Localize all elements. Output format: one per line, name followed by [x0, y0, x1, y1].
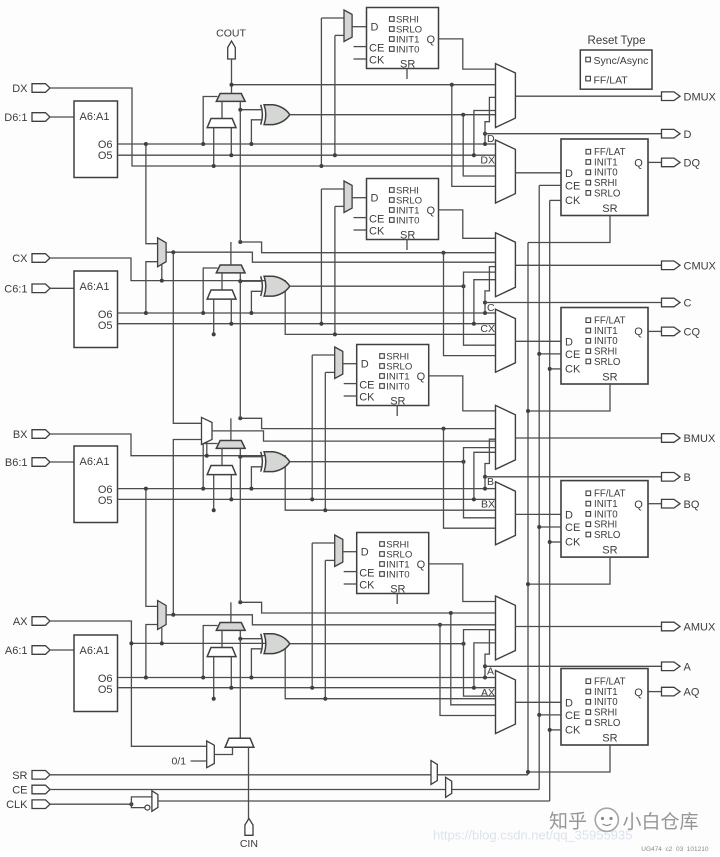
output mux BOUTMUX	[496, 405, 516, 469]
wire O6 bus row C	[118, 312, 486, 314]
LUT C (A6:A1) box	[74, 271, 118, 348]
output pin C	[662, 298, 681, 307]
wire small FF Q to out mux D	[439, 39, 496, 69]
svg-text:AQ: AQ	[684, 687, 700, 699]
wire small FF Q to out mux A	[429, 564, 496, 602]
wire carry branch to lower mux D	[452, 85, 496, 187]
wire data mux legs D	[213, 128, 215, 166]
wire CLK bus to big FF A	[550, 729, 561, 731]
wire big FF SR to SR bus D	[528, 216, 610, 243]
small flip-flop B5FF box	[357, 345, 429, 406]
wire data mux out to MUXCY D	[221, 101, 223, 118]
wire small mux out to FF D C	[352, 197, 366, 199]
wire XOR branch to lower mux C	[464, 286, 496, 345]
wire CLK bus to big FF C	[550, 368, 561, 370]
svg-text:A: A	[487, 666, 494, 678]
wire DX route	[50, 88, 496, 166]
output pin B	[662, 473, 681, 482]
wire XOR output D	[290, 114, 496, 116]
svg-text:D: D	[361, 359, 369, 371]
wire F7BMUX select	[161, 265, 163, 281]
SR bus vertical	[527, 243, 529, 775]
FF input mux BFFMUX	[496, 482, 516, 545]
svg-text:INIT0: INIT0	[396, 216, 419, 227]
D5FF CE stub	[354, 46, 367, 48]
svg-text:DQ: DQ	[684, 158, 701, 170]
watermark logo	[595, 808, 618, 831]
svg-text:CX: CX	[12, 253, 28, 265]
input pin CE	[32, 785, 50, 794]
input pin AX	[32, 617, 50, 626]
svg-text:CX: CX	[480, 323, 495, 335]
wire carry chain C-B	[239, 281, 241, 418]
svg-text:O5: O5	[98, 495, 113, 507]
svg-text:SR: SR	[602, 733, 617, 745]
svg-text:CE: CE	[565, 180, 580, 192]
wire CE line	[50, 789, 539, 791]
wire data mux out to MUXCY C	[221, 273, 223, 290]
svg-text:CIN: CIN	[240, 838, 258, 850]
B5FF CK stub	[344, 395, 357, 397]
svg-text:SR: SR	[12, 770, 27, 782]
xor A	[264, 634, 290, 654]
carry mux MUXCY C	[216, 265, 245, 273]
output pin BQ	[662, 499, 681, 508]
wire carry tap to muxes C	[240, 242, 443, 253]
data mux A	[207, 648, 236, 657]
wire small mux taps B	[311, 355, 313, 499]
wire CX route	[50, 258, 496, 334]
wire carry chain B-A	[239, 457, 241, 603]
svg-text:SRLO: SRLO	[594, 188, 621, 199]
carry mux MUXCY A	[216, 623, 245, 631]
wire O6 jog to out mux and B output tap	[485, 439, 496, 488]
wire O6 jog to out mux and A output tap	[485, 630, 496, 678]
wire AMUX output	[515, 626, 661, 628]
wire B6:1 to LUT	[50, 461, 74, 463]
svg-text:CE: CE	[369, 214, 384, 226]
wire F7AMUX out up to F8MUX	[173, 440, 201, 615]
LUT B (A6:A1) box	[74, 446, 118, 523]
small FF input mux A	[335, 535, 343, 567]
svg-text:DMUX: DMUX	[684, 91, 717, 103]
wire carry tap to muxes D	[232, 84, 452, 86]
LUT D (A6:A1) box	[74, 101, 118, 178]
input pin CLK	[32, 800, 50, 809]
CLK polarity mux	[152, 791, 158, 812]
wire COUT to MUXCY D	[231, 59, 233, 94]
wire CE bus to big FF A	[539, 714, 561, 716]
input pin B6:1	[32, 458, 50, 467]
wire O5 bus row B	[118, 498, 496, 500]
wire XOR branch to lower mux D	[463, 115, 495, 176]
FF input mux DFFMUX	[496, 140, 516, 203]
svg-text:CK: CK	[565, 724, 581, 736]
output pin DQ	[662, 158, 681, 167]
wire O5 bus row C	[118, 323, 496, 325]
wire lower mux to big FF D B	[515, 513, 561, 515]
A5FF CK stub	[344, 583, 357, 585]
C5FF CK stub	[354, 229, 367, 231]
svg-text:D6:1: D6:1	[4, 112, 27, 124]
svg-text:SRLO: SRLO	[594, 530, 621, 541]
svg-text:O5: O5	[98, 150, 113, 162]
svg-text:A6:1: A6:1	[5, 645, 28, 657]
wire CLK bus to big FF D	[550, 199, 561, 201]
wire small mux out to FF D B	[343, 363, 357, 365]
wire C6:1 to LUT	[50, 287, 74, 289]
wire O6 to XOR input B	[251, 467, 262, 489]
FF input mux CFFMUX	[496, 309, 516, 372]
svg-text:SR: SR	[400, 59, 415, 71]
wire CE bus to big FF D	[539, 184, 561, 186]
wire A output line	[485, 665, 662, 667]
svg-text:CMUX: CMUX	[684, 260, 717, 272]
svg-text:O5: O5	[98, 684, 113, 696]
wire lower mux to big FF D A	[515, 701, 561, 703]
svg-text:CK: CK	[359, 579, 375, 591]
output mux DOUTMUX	[496, 64, 516, 128]
wire carry branch to lower mux A	[451, 613, 496, 705]
svg-text:Q: Q	[426, 205, 435, 217]
svg-text:CE: CE	[565, 710, 580, 722]
wire carry-in leg and XOR tap B	[239, 448, 241, 456]
svg-text:D: D	[371, 193, 379, 205]
wire F7AMUX branch to lower mux A	[440, 625, 496, 716]
svg-text:C: C	[684, 298, 692, 310]
wire O6 to XOR input A	[251, 649, 262, 678]
wire O6 bus row D	[118, 143, 486, 145]
wire small FF Q to out mux B	[429, 376, 496, 411]
svg-text:CE: CE	[369, 43, 384, 55]
svg-text:D: D	[565, 168, 573, 180]
data mux B	[207, 466, 236, 475]
svg-text:Q: Q	[417, 371, 426, 383]
svg-text:A6:A1: A6:A1	[80, 111, 110, 123]
svg-text:Q: Q	[417, 559, 426, 571]
wire F7BMUX output	[166, 252, 495, 262]
svg-text:Q: Q	[634, 326, 643, 338]
wire BMUX output	[515, 437, 661, 439]
svg-text:SR: SR	[602, 203, 617, 215]
output pin A	[662, 662, 681, 671]
svg-text:CK: CK	[565, 537, 581, 549]
C5FF CE stub	[354, 217, 367, 219]
wire 0/1 stub	[191, 760, 207, 762]
wire O5 branch to out mux D	[474, 111, 496, 156]
wire O6 to XOR input D	[251, 120, 262, 144]
svg-text:D: D	[487, 133, 495, 145]
svg-text:O5: O5	[98, 320, 113, 332]
wire small mux taps D	[320, 18, 322, 166]
wire small mux out to FF D A	[343, 551, 357, 553]
wire O6 feed from below to F7 C	[146, 262, 158, 313]
wire big FF Q to CQ pin	[648, 330, 662, 332]
svg-text:D: D	[565, 336, 573, 348]
mux F7BMUX	[158, 238, 167, 267]
wire CLK to inverter mux	[131, 797, 152, 804]
wire lower mux to big FF D D	[515, 172, 561, 174]
COUT pin	[228, 41, 236, 59]
svg-text:AMUX: AMUX	[684, 622, 716, 634]
big FF/LAT BFF box	[561, 481, 648, 557]
svg-text:BX: BX	[481, 499, 495, 511]
svg-text:SR: SR	[602, 545, 617, 557]
svg-text:DX: DX	[12, 83, 28, 95]
wire AX route	[50, 621, 207, 746]
wire D6:1 to LUT	[50, 116, 74, 118]
svg-text:0/1: 0/1	[171, 756, 186, 768]
D5FF SR stub	[406, 69, 408, 80]
output pin D	[662, 129, 681, 138]
wire data mux out to MUXCY A	[221, 630, 223, 647]
output mux AOUTMUX	[496, 596, 516, 660]
small FF input mux C	[344, 181, 352, 213]
output pin CMUX	[662, 261, 681, 270]
mux F8MUX	[202, 417, 213, 444]
small flip-flop A5FF box	[357, 533, 429, 594]
svg-text:A6:A1: A6:A1	[80, 456, 110, 468]
wire XOR output B	[290, 461, 464, 463]
svg-text:BMUX: BMUX	[684, 433, 716, 445]
wire O6 feed from above to F7 A	[146, 489, 158, 607]
svg-text:C: C	[487, 302, 495, 314]
wire O5 branch to out mux C	[474, 280, 496, 324]
svg-text:D: D	[361, 547, 369, 559]
svg-text:CQ: CQ	[684, 327, 701, 339]
wire lower mux to big FF D C	[515, 340, 561, 342]
svg-text:BX: BX	[13, 429, 28, 441]
wire carry branch to lower mux C	[444, 253, 496, 356]
svg-text:SR: SR	[390, 584, 405, 596]
B5FF SR stub	[396, 406, 398, 417]
big FF/LAT CFF box	[561, 308, 648, 385]
wire carry chain A to init mux	[239, 639, 241, 739]
wire carry tap to muxes B	[240, 418, 443, 428]
wire F7BMUX out down to F8MUX	[173, 252, 201, 423]
wire O6 to MUXCY select C	[203, 268, 217, 313]
D5FF CK stub	[354, 58, 367, 60]
svg-text:CLK: CLK	[6, 799, 28, 811]
svg-text:SRLO: SRLO	[594, 357, 621, 368]
svg-text:INIT0: INIT0	[386, 382, 409, 393]
wire carry chain D-C	[239, 110, 241, 242]
svg-text:A: A	[684, 661, 692, 673]
CE gate mux	[446, 777, 452, 797]
svg-text:CK: CK	[369, 54, 385, 66]
wire carry-in leg and XOR tap A	[239, 630, 241, 638]
FF input mux AFFMUX	[496, 671, 516, 734]
data mux C	[207, 290, 236, 299]
wire O5 bus row D	[118, 154, 496, 156]
A5FF CE stub	[344, 571, 357, 573]
wire O6 to MUXCY select A	[203, 626, 217, 678]
svg-text:CE: CE	[359, 380, 374, 392]
output mux COUTMUX	[496, 233, 516, 297]
wire O5 branch to out mux B	[474, 452, 496, 499]
svg-text:FF/LAT: FF/LAT	[594, 74, 629, 86]
wire big FF Q to AQ pin	[648, 691, 662, 693]
wire CMUX output	[515, 264, 661, 266]
svg-text:SR: SR	[602, 372, 617, 384]
0/1 mux	[207, 741, 215, 768]
SR gate mux	[431, 761, 437, 785]
wire data mux legs C	[213, 299, 215, 334]
wire big FF SR to SR bus B	[528, 557, 610, 584]
svg-text:DX: DX	[480, 154, 495, 166]
svg-text:B: B	[684, 472, 691, 484]
svg-text:小白仓库: 小白仓库	[623, 811, 699, 833]
svg-text:Q: Q	[634, 687, 643, 699]
svg-text:Q: Q	[634, 499, 643, 511]
svg-text:SRLO: SRLO	[594, 718, 621, 729]
C5FF SR stub	[406, 240, 408, 251]
wire carry tap to muxes A	[240, 602, 450, 613]
A5FF SR stub	[396, 594, 398, 605]
wire CE bus to big FF C	[539, 353, 561, 355]
wire XOR branch to lower mux B	[464, 462, 496, 518]
svg-text:BQ: BQ	[684, 499, 700, 511]
wire CE bus to big FF B	[539, 526, 561, 528]
svg-text:D: D	[684, 129, 692, 141]
small flip-flop D5FF box	[367, 8, 439, 69]
wire carry branch to lower mux B	[444, 429, 496, 529]
wire O6 feed from above to F7 C	[146, 144, 158, 244]
CLK inverter bubble	[145, 805, 150, 810]
data mux D	[207, 119, 236, 128]
svg-text:Q: Q	[634, 157, 643, 169]
mux F7AMUX	[158, 601, 167, 630]
init	[225, 738, 254, 747]
wire F7AMUX output	[166, 615, 495, 625]
carry mux MUXCY D	[216, 94, 245, 102]
svg-text:D: D	[565, 509, 573, 521]
wire 0/1 mux output to init mux	[214, 747, 232, 754]
wire D output line	[485, 133, 662, 135]
svg-text:CE: CE	[565, 522, 580, 534]
wire small FF Q to out mux C	[439, 210, 496, 238]
svg-text:INIT0: INIT0	[386, 570, 409, 581]
svg-text:CK: CK	[369, 225, 385, 237]
wire O6 to XOR input C	[251, 291, 262, 313]
svg-text:AX: AX	[481, 687, 495, 699]
svg-text:知乎: 知乎	[549, 811, 587, 833]
wire data mux out to MUXCY B	[221, 448, 223, 465]
svg-text:CE: CE	[12, 785, 27, 797]
big FF/LAT AFF box	[561, 669, 648, 746]
xor C	[264, 276, 290, 296]
input pin BX	[32, 430, 50, 439]
svg-text:Reset Type: Reset Type	[588, 35, 646, 47]
svg-text:SR: SR	[400, 230, 415, 242]
input pin CX	[32, 254, 50, 263]
wire B output line	[485, 476, 662, 478]
svg-text:D: D	[371, 22, 379, 34]
wire O6 to MUXCY select B	[203, 444, 217, 489]
svg-text:CK: CK	[565, 363, 581, 375]
wire XOR branch to lower mux A	[464, 644, 496, 696]
wire XOR output C	[290, 285, 464, 287]
wire O5 branch to out mux A	[474, 643, 496, 688]
svg-text:A6:A1: A6:A1	[80, 645, 110, 657]
output pin AMUX	[662, 622, 681, 631]
svg-text:CE: CE	[565, 349, 580, 361]
wire O5 bus row A	[118, 687, 496, 689]
input pin D6:1	[32, 113, 50, 122]
wire big FF SR to SR bus A	[528, 745, 610, 772]
output pin AQ	[662, 687, 681, 696]
svg-text:UG474_c2_03_101210: UG474_c2_03_101210	[641, 846, 709, 852]
wire data mux legs B	[213, 475, 215, 511]
input pin A6:1	[32, 646, 50, 655]
LUT A (A6:A1) box	[74, 635, 118, 712]
xor B	[264, 452, 290, 472]
output pin BMUX	[662, 434, 681, 443]
svg-text:CK: CK	[565, 195, 581, 207]
wire A6:1 to LUT	[50, 649, 74, 651]
svg-text:SR: SR	[390, 396, 405, 408]
wire BX route	[50, 434, 496, 510]
wire C output line	[485, 302, 662, 304]
wire carry-in leg and XOR tap C	[239, 273, 241, 281]
wire SR line	[50, 774, 528, 776]
CIN pin	[245, 819, 253, 836]
svg-text:AX: AX	[13, 616, 28, 628]
output pin CQ	[662, 327, 681, 336]
carry mux MUXCY B	[216, 441, 245, 449]
wire F8MUX select	[206, 443, 208, 456]
xor D	[264, 105, 290, 125]
svg-text:CE: CE	[359, 568, 374, 580]
CE bus vertical	[538, 185, 540, 789]
wire carry-in leg and XOR tap D	[239, 101, 241, 109]
wire O6 bus row B	[118, 488, 486, 490]
wire O6 jog to out mux and C output tap	[485, 267, 496, 313]
svg-text:Q: Q	[426, 34, 435, 46]
wire small mux taps A	[311, 543, 313, 688]
wire XOR output A	[290, 643, 464, 645]
B5FF CE stub	[344, 383, 357, 385]
big FF/LAT DFF box	[561, 139, 648, 216]
wire O6 to MUXCY select D	[203, 97, 217, 145]
wire CLK mux output to CLK bus	[158, 800, 550, 802]
input pin SR	[32, 771, 50, 780]
small FF input mux D	[344, 10, 352, 42]
CLK bus vertical	[549, 200, 551, 801]
svg-text:D: D	[565, 697, 573, 709]
svg-text:INIT0: INIT0	[396, 45, 419, 56]
svg-text:CK: CK	[359, 391, 375, 403]
wire data mux legs A	[213, 657, 215, 699]
output pin DMUX	[662, 92, 681, 101]
wire DMUX output	[515, 95, 661, 97]
wire O6 bus row A	[118, 677, 486, 679]
wire small mux out to FF D D	[352, 26, 366, 28]
svg-text:Sync/Async: Sync/Async	[594, 55, 649, 67]
svg-text:COUT: COUT	[216, 27, 246, 39]
svg-text:A6:A1: A6:A1	[80, 281, 110, 293]
wire F8MUX output	[212, 431, 496, 441]
wire big FF SR to SR bus C	[528, 384, 610, 411]
wire init mux to CIN	[248, 747, 250, 819]
wire CLK bus to big FF B	[550, 541, 561, 543]
wire big FF Q to BQ pin	[648, 503, 662, 505]
input pin C6:1	[32, 284, 50, 293]
wire CLK line	[50, 803, 131, 805]
small FF input mux B	[335, 347, 343, 379]
wire O6 feed from below to F7 A	[146, 625, 158, 678]
small flip-flop C5FF box	[367, 179, 439, 240]
